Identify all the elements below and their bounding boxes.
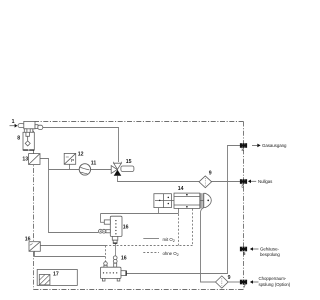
svg-text:11: 11 bbox=[91, 160, 97, 166]
svg-text:9: 9 bbox=[228, 275, 231, 281]
svg-text:15: 15 bbox=[126, 159, 132, 165]
svg-text:17: 17 bbox=[53, 272, 59, 278]
svg-text:2: 2 bbox=[241, 147, 244, 152]
svg-text:P: P bbox=[71, 158, 74, 164]
svg-text:9: 9 bbox=[209, 170, 212, 176]
svg-text:Gasausgang: Gasausgang bbox=[262, 143, 287, 148]
svg-text:Chopperraum-: Chopperraum- bbox=[259, 276, 287, 281]
svg-text:16: 16 bbox=[25, 236, 31, 242]
svg-text:spülung (Option): spülung (Option) bbox=[259, 282, 291, 287]
svg-text:14: 14 bbox=[178, 186, 184, 192]
svg-text:13: 13 bbox=[22, 157, 28, 163]
svg-text:1: 1 bbox=[12, 119, 15, 125]
svg-text:12: 12 bbox=[78, 152, 84, 158]
svg-text:bespülung: bespülung bbox=[260, 252, 280, 257]
svg-text:Gehäuse-: Gehäuse- bbox=[260, 246, 279, 251]
svg-text:16: 16 bbox=[123, 224, 129, 230]
svg-text:Nullgas: Nullgas bbox=[258, 179, 273, 184]
svg-text:16: 16 bbox=[121, 256, 127, 262]
svg-text:8: 8 bbox=[17, 136, 20, 142]
svg-text:3: 3 bbox=[241, 183, 244, 188]
svg-text:7: 7 bbox=[243, 284, 246, 289]
svg-text:5: 5 bbox=[243, 251, 246, 256]
